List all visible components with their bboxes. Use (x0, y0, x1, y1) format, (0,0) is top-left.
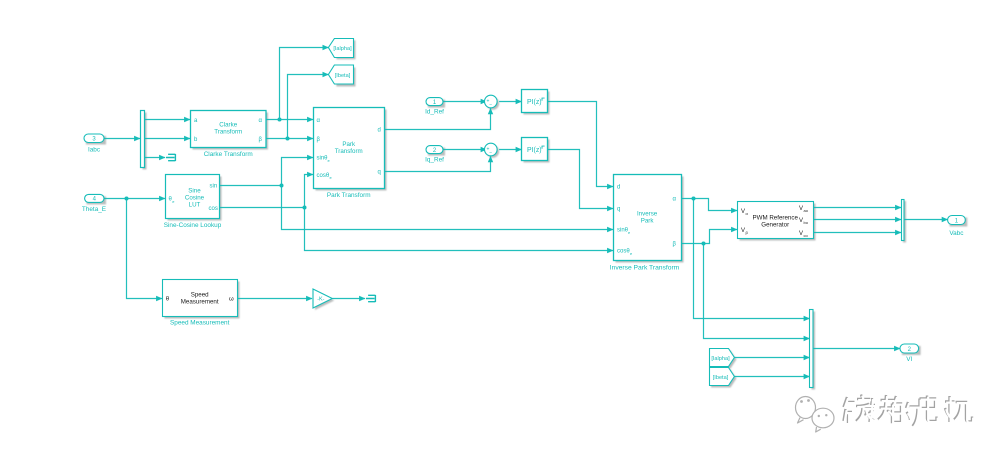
svg-text:V: V (799, 218, 803, 224)
svg-text:ao: ao (804, 208, 809, 213)
svg-text:cosθ: cosθ (617, 249, 630, 255)
svg-text:Park Transform: Park Transform (327, 192, 371, 199)
svg-text:Clarke Transform: Clarke Transform (204, 151, 253, 158)
svg-text:Inverse: Inverse (637, 211, 658, 218)
svg-text:Clarke: Clarke (219, 121, 237, 128)
svg-text:α: α (259, 118, 263, 124)
svg-text:-K-: -K- (317, 297, 324, 303)
svg-text:cos: cos (209, 206, 218, 212)
svg-text:Sine: Sine (188, 187, 201, 194)
svg-text:Theta_E: Theta_E (82, 206, 106, 213)
svg-text:sinθ: sinθ (617, 228, 629, 234)
svg-text:LUT: LUT (189, 201, 201, 208)
svg-text:α: α (317, 118, 321, 124)
svg-text:V: V (741, 209, 745, 215)
svg-text:β: β (259, 137, 263, 143)
svg-text:Transform: Transform (335, 148, 363, 155)
svg-text:Park: Park (641, 218, 655, 225)
svg-text:[Ialpha]: [Ialpha] (333, 46, 352, 52)
svg-text:Cosine: Cosine (185, 194, 205, 201)
svg-text:[Ialpha]: [Ialpha] (711, 356, 730, 362)
svg-text:Speed: Speed (191, 291, 209, 298)
svg-text:cosθ: cosθ (317, 173, 330, 179)
svg-text:Speed Measurement: Speed Measurement (170, 320, 230, 327)
svg-text:Iq_Ref: Iq_Ref (425, 156, 444, 163)
svg-text:[Ibeta]: [Ibeta] (335, 73, 351, 79)
svg-text:ω: ω (229, 297, 234, 303)
svg-text:β: β (673, 242, 677, 248)
svg-text:PI(z): PI(z) (527, 147, 542, 154)
svg-text:V: V (799, 206, 803, 212)
svg-text:d: d (617, 185, 620, 191)
svg-text:Park: Park (342, 141, 356, 148)
svg-text:α: α (673, 197, 677, 203)
svg-text:sinθ: sinθ (317, 156, 329, 162)
svg-text:β: β (317, 137, 321, 143)
svg-text:PWM Reference: PWM Reference (753, 215, 799, 222)
svg-text:−: − (489, 102, 492, 108)
svg-text:PI(z): PI(z) (527, 99, 542, 106)
svg-text:d: d (378, 128, 381, 134)
svg-text:V: V (741, 228, 745, 234)
svg-text:Vabc: Vabc (949, 230, 964, 237)
svg-text:Measurement: Measurement (181, 298, 219, 305)
svg-text:Id_Ref: Id_Ref (425, 108, 444, 115)
svg-text:Iabc: Iabc (88, 146, 101, 153)
svg-text:V: V (799, 231, 803, 237)
svg-text:Inverse Park Transform: Inverse Park Transform (610, 265, 680, 272)
svg-text:Generator: Generator (761, 222, 789, 229)
svg-text:Sine-Cosine Lookup: Sine-Cosine Lookup (164, 222, 222, 229)
svg-text:q: q (378, 170, 381, 176)
svg-text:q: q (617, 207, 620, 213)
svg-text:[Ibeta]: [Ibeta] (713, 375, 729, 381)
svg-text:VI: VI (906, 356, 912, 363)
svg-text:Transform: Transform (214, 128, 242, 135)
svg-text:−: − (489, 150, 492, 156)
svg-text:sin: sin (210, 184, 218, 190)
svg-text:bo: bo (804, 220, 809, 225)
